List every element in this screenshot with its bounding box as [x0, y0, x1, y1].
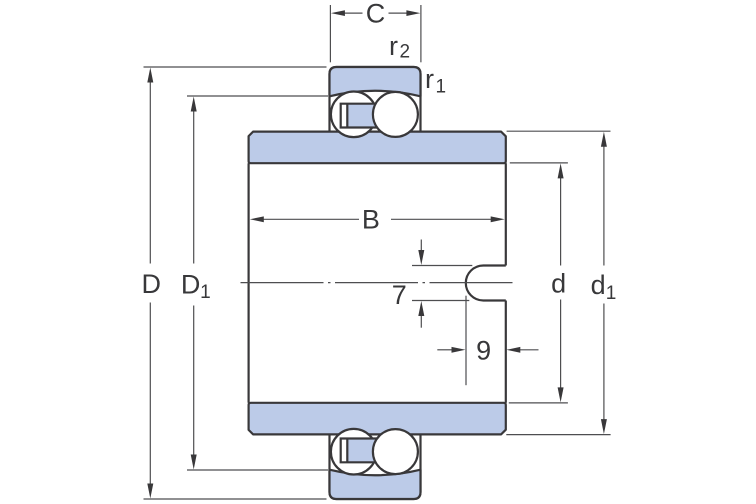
d extension line bottom — [509, 402, 568, 404]
cage bottom (blue pocket) — [347, 439, 392, 463]
D1 dimension line + arrows — [193, 110, 195, 264]
lubrication notch — [466, 266, 506, 301]
svg-text:D: D — [181, 269, 201, 299]
bore left face line — [248, 163, 250, 403]
outer ring bottom section body — [330, 434, 421, 499]
inner ring top bar — [249, 132, 506, 164]
svg-text:C: C — [366, 0, 386, 29]
outer ring bottom raceway (blue) — [330, 470, 421, 499]
svg-text:1: 1 — [200, 282, 211, 303]
9-dim left arrow — [437, 349, 452, 351]
outer ring top raceway (blue) — [330, 67, 421, 96]
svg-text:7: 7 — [392, 280, 407, 310]
d dimension line + arrows — [560, 177, 562, 266]
ball bottom-left — [331, 429, 377, 475]
7-dim upper arrow — [420, 240, 422, 252]
svg-text:D: D — [141, 269, 161, 299]
C dimension line + arrows — [343, 12, 363, 14]
outer ring top section body — [330, 67, 421, 132]
7-dim upper extension line — [412, 265, 472, 267]
9-dim extension line — [465, 296, 467, 386]
cage bottom outline — [341, 439, 378, 463]
svg-text:2: 2 — [400, 42, 411, 63]
d1 extension line bottom — [506, 434, 610, 436]
D1 extension line top — [187, 95, 328, 97]
D dimension line + arrows — [149, 81, 151, 264]
svg-text:r: r — [389, 31, 398, 61]
D extension line bottom — [144, 498, 327, 500]
svg-text:d: d — [551, 268, 566, 298]
D1 extension line bottom — [187, 469, 328, 471]
D extension line top — [144, 66, 327, 68]
C extension line right — [420, 5, 422, 62]
svg-text:9: 9 — [476, 336, 491, 366]
ball bottom-right — [373, 429, 418, 474]
d1 extension line top — [507, 130, 611, 132]
bore right face line lower — [505, 301, 507, 403]
svg-text:1: 1 — [606, 283, 617, 304]
d extension line top — [510, 162, 568, 164]
B dimension line + arrows — [262, 218, 359, 220]
cage top outline — [341, 104, 378, 128]
svg-text:d: d — [591, 270, 606, 300]
ball top-right — [373, 92, 418, 137]
svg-text:r: r — [425, 64, 434, 94]
C extension line left — [329, 5, 331, 62]
9-dim right arrow — [520, 349, 539, 351]
ball top-left — [331, 92, 377, 138]
cage top (blue pocket) — [347, 104, 392, 128]
7-dim lower extension line — [412, 300, 469, 302]
svg-text:1: 1 — [436, 77, 447, 98]
7-dim lower arrow — [420, 315, 422, 328]
svg-text:B: B — [362, 205, 380, 235]
bore right face line upper — [505, 163, 507, 265]
centerline (shaft axis) — [241, 282, 515, 284]
d1 dimension line + arrows — [603, 146, 605, 266]
inner ring bottom bar — [249, 403, 506, 435]
